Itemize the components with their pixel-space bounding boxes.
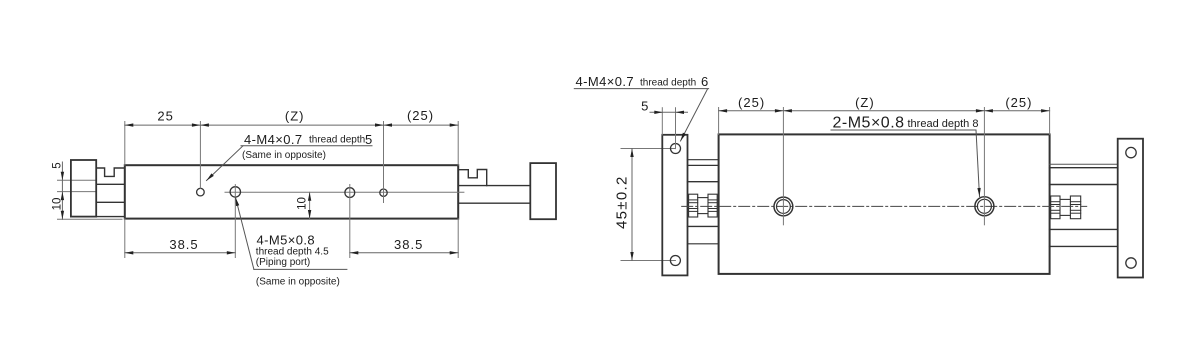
top view: dash-dot centerline <box>682 205 1087 207</box>
side view: extension line above body right edge <box>457 122 459 166</box>
top view: arrowheads of 5 dimension <box>654 111 663 114</box>
side view: arrowheads of middle 10 dimension <box>308 192 311 201</box>
svg-text:(25): (25) <box>1005 95 1032 110</box>
top view: left adjusting nut B <box>708 194 717 217</box>
side view: arrowhead of 4-M5 leader <box>234 197 239 206</box>
top view: M5 port B inner circle <box>977 199 991 213</box>
side view: top dimension line 25 (Z) (25) <box>125 124 458 126</box>
top view: extension line body left edge <box>718 108 720 135</box>
svg-text:45±0.2: 45±0.2 <box>614 175 631 229</box>
side view: cylinder body <box>125 165 458 218</box>
side view: left rod bottom line <box>96 216 125 218</box>
side view: arrowhead of 4-M4 leader <box>205 173 214 181</box>
svg-text:4-M5×0.8: 4-M5×0.8 <box>257 233 315 248</box>
top view: extension line through port A <box>782 108 784 225</box>
top view: arrowheads of 45 dimension <box>630 149 633 158</box>
top view: extension line through plate hole <box>675 108 677 149</box>
side view: left rod upper line <box>96 183 125 185</box>
top view: left gap upper rod lines <box>688 159 719 161</box>
side view: extension line through M5 port left <box>234 185 236 258</box>
side view: underline of 4-M5 label <box>254 268 347 270</box>
top view: right plate upper M4 hole <box>1126 147 1136 157</box>
side view: extension line above body left edge <box>124 122 126 166</box>
side view: arrowheads of 5 and 10 dimensions <box>61 172 64 181</box>
svg-text:(Z): (Z) <box>855 95 875 110</box>
top view: dimension line 45+-0.2 <box>631 149 633 261</box>
side view: horizontal centerline through ports <box>225 191 464 193</box>
side view: right rod stepped blocks <box>458 170 487 186</box>
top view: extension line body right edge <box>1049 108 1051 135</box>
svg-text:38.5: 38.5 <box>169 237 198 252</box>
side view: right rod upper line <box>458 185 530 187</box>
side view: extension line through M4 hole left <box>199 122 201 189</box>
top view: left plate lower M4 hole <box>670 256 680 266</box>
top view: M5 port A inner circle <box>777 200 791 214</box>
svg-text:5: 5 <box>52 162 64 168</box>
top view: right gap lower rod lines <box>1050 228 1118 230</box>
top view: arrowhead of 2-M5 leader <box>977 188 981 197</box>
svg-text:thread depth: thread depth <box>640 78 696 89</box>
svg-text:(Z): (Z) <box>285 109 305 124</box>
svg-text:(Same in opposite): (Same in opposite) <box>256 276 340 287</box>
svg-text:5: 5 <box>641 99 649 114</box>
svg-text:(25): (25) <box>738 95 765 110</box>
side view: extension line top of 5 dim <box>58 179 97 181</box>
svg-text:thread depth 8: thread depth 8 <box>908 118 979 130</box>
side view: left rod stepped blocks <box>96 168 125 184</box>
top view: leader line of 4-M4 label <box>681 89 708 141</box>
side view: vertical dimension line for 5 and 10 <box>61 162 63 219</box>
svg-text:6: 6 <box>701 74 709 89</box>
svg-text:(Piping port): (Piping port) <box>256 257 310 268</box>
top view: arrowhead of 4-M4 leader <box>679 133 686 142</box>
top view: dimension line 5 <box>650 111 688 113</box>
svg-text:10: 10 <box>52 198 64 211</box>
side view: arrowheads of 38.5 dimensions <box>125 251 134 254</box>
top view: extension line of 45 dim upper <box>621 148 676 150</box>
side view: extension line below body left edge <box>124 219 126 258</box>
top view: label thread depth (small) <box>640 78 696 89</box>
top view: underline of 4-M4 label <box>574 88 708 90</box>
svg-text:10: 10 <box>297 197 309 210</box>
side view: leader line of 4-M5 label <box>236 198 254 270</box>
top view: right nut connector shaft <box>1060 198 1070 200</box>
svg-text:5: 5 <box>365 132 373 147</box>
side view: left end knob plate <box>71 160 96 217</box>
top view: M5 port A outer circle <box>774 197 793 216</box>
top view: left nut connector shaft <box>698 197 708 199</box>
side view: right end plate <box>530 163 556 219</box>
svg-text:4-M4×0.7: 4-M4×0.7 <box>244 132 302 147</box>
top view: left plate upper M4 hole <box>671 144 681 154</box>
top view: extension line of 45 dim lower <box>621 260 675 262</box>
top view: cylinder body <box>719 134 1050 274</box>
top view: arrowheads of top dimension line <box>719 109 728 112</box>
svg-text:25: 25 <box>157 109 173 124</box>
svg-text:(25): (25) <box>407 108 434 123</box>
top view: M5 port B outer circle <box>975 197 994 216</box>
side view: right rod lower line <box>458 202 530 204</box>
top view: right plate lower M4 hole <box>1126 258 1136 268</box>
svg-text:38.5: 38.5 <box>394 237 423 252</box>
top view: right mounting plate <box>1118 139 1143 278</box>
top view: left gap lower rod lines <box>688 225 719 227</box>
side view: extension line bottom of 10 dim <box>58 218 123 220</box>
svg-text:4-M4×0.7: 4-M4×0.7 <box>576 74 634 89</box>
side view: leader line of 4-M4 label <box>207 146 244 181</box>
side view: extension line between 5 and 10 dims <box>58 191 97 193</box>
side view: extension line below body right edge <box>457 219 459 258</box>
top view: leader line of 2-M5 label <box>976 130 980 197</box>
top view: right adjusting nut A <box>1051 196 1060 219</box>
top view: left adjusting nut A <box>689 194 698 217</box>
top view: right adjusting nut B <box>1070 196 1080 219</box>
side view: M5 piping port left <box>230 187 240 197</box>
side view: dimension line 38.5 left <box>125 252 236 254</box>
side view: underline of 4-M4 label <box>241 145 372 147</box>
side view: M5 piping port right <box>345 188 355 198</box>
svg-text:2-M5×0.8: 2-M5×0.8 <box>833 115 905 132</box>
svg-text:thread depth: thread depth <box>309 135 365 146</box>
top view: underline of 2-M5 label <box>831 129 976 131</box>
top view: extension line plate left edge <box>661 108 663 135</box>
side view: arrowheads of top dimension line <box>125 123 134 126</box>
side view: extension line through M4 hole right <box>383 122 385 203</box>
side view: M4 thread hole left <box>197 188 205 196</box>
side view: dimension line 38.5 right <box>350 252 458 254</box>
svg-text:(Same in opposite): (Same in opposite) <box>242 150 326 161</box>
top view: left mounting plate <box>662 135 687 276</box>
side view: M4 thread hole right <box>380 189 387 196</box>
side view: dimension line of middle 10 <box>309 192 311 218</box>
side view: extension line through M5 port right <box>349 185 351 258</box>
top view: right gap upper rod lines <box>1050 163 1118 165</box>
side view: left rod lower line <box>96 201 125 203</box>
top view: extension line through port B <box>983 108 985 225</box>
top view: top dimension line (25)(Z)(25) <box>719 110 1050 112</box>
